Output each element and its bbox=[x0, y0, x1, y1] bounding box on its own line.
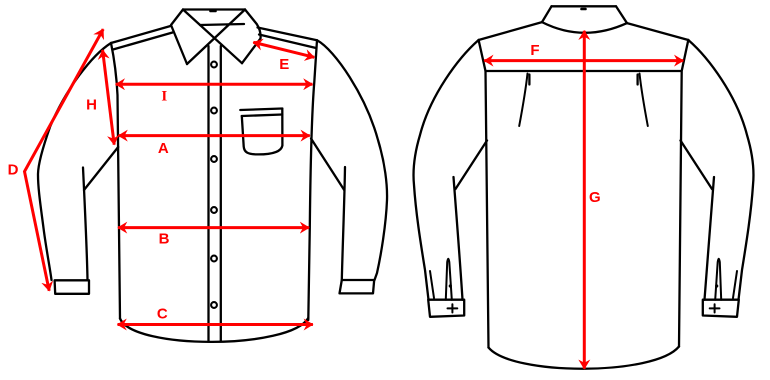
svg-text:C: C bbox=[157, 305, 168, 322]
front left sleeve inner bbox=[83, 168, 88, 281]
back right cuff seam bbox=[733, 271, 737, 298]
front placket bbox=[209, 46, 221, 342]
back yoke line bbox=[486, 70, 682, 72]
back left shoulder slope bbox=[479, 22, 542, 40]
button 6 bbox=[211, 302, 217, 308]
back right sleeve inner bbox=[681, 141, 715, 300]
back left cuff seam bbox=[430, 271, 434, 298]
arrow A bbox=[119, 134, 310, 137]
button 2 bbox=[211, 108, 217, 114]
back right sleeve outer bbox=[688, 40, 753, 300]
front left yoke seam bbox=[111, 26, 173, 50]
front buttons bbox=[211, 62, 217, 308]
collar inner band line bbox=[200, 24, 244, 25]
back right sleeve placket button bbox=[715, 284, 718, 287]
button 4 bbox=[211, 207, 217, 213]
back right pleat bbox=[640, 74, 648, 127]
button 1 bbox=[211, 62, 217, 68]
back left cuff bbox=[428, 300, 464, 317]
back body left edge bbox=[479, 40, 489, 348]
back collar top bbox=[552, 5, 617, 7]
front right yoke seam bbox=[258, 28, 318, 49]
arrow D bbox=[25, 29, 104, 291]
back right sleeve placket bbox=[715, 259, 721, 300]
back right shoulder slope bbox=[627, 23, 688, 40]
back collar bottom curve bbox=[542, 22, 627, 33]
collar diagonal right point to left corner bbox=[183, 10, 242, 64]
svg-text:G: G bbox=[589, 189, 601, 206]
back right cuff bbox=[703, 300, 739, 317]
svg-text:B: B bbox=[159, 231, 170, 248]
back collar tick bbox=[582, 8, 586, 11]
back left sleeve outer bbox=[413, 40, 478, 300]
svg-text:E: E bbox=[279, 56, 289, 73]
front right sleeve inner bbox=[342, 167, 345, 280]
back left sleeve inner bbox=[454, 141, 488, 300]
arrow B bbox=[118, 226, 309, 229]
arrow C bbox=[118, 323, 313, 326]
front right sleeve outer bbox=[317, 40, 387, 280]
collar top line bbox=[183, 8, 245, 10]
button 5 bbox=[211, 256, 217, 262]
back left sleeve placket button bbox=[449, 284, 452, 287]
pocket body bbox=[242, 109, 283, 155]
button 3 bbox=[211, 156, 217, 162]
back collar left side bbox=[542, 6, 552, 22]
front right armpit seam bbox=[311, 139, 344, 191]
front body right edge bbox=[308, 40, 317, 320]
front body left edge bbox=[111, 43, 120, 319]
back hem bbox=[489, 347, 680, 369]
svg-text:D: D bbox=[8, 162, 19, 179]
collar right leaf outer bbox=[242, 10, 261, 64]
arrow G bbox=[583, 31, 586, 369]
collar diagonal left point to right corner bbox=[187, 10, 245, 65]
back right cuff cross bbox=[710, 304, 720, 312]
collar tick bbox=[211, 10, 216, 13]
back collar right side bbox=[616, 6, 627, 23]
svg-text:A: A bbox=[158, 140, 169, 157]
front hem bbox=[120, 318, 308, 342]
arrow F bbox=[484, 59, 683, 62]
svg-text:H: H bbox=[86, 97, 97, 114]
back body right edge bbox=[679, 40, 688, 347]
back left pleat bbox=[519, 74, 527, 127]
svg-text:I: I bbox=[161, 88, 167, 104]
back left sleeve placket bbox=[446, 259, 452, 300]
front left cuff bbox=[55, 280, 89, 294]
arrow E bbox=[253, 42, 314, 57]
front left sleeve outer bbox=[38, 43, 111, 280]
collar left leaf outer bbox=[171, 10, 187, 65]
svg-text:F: F bbox=[530, 42, 539, 59]
back left cuff cross bbox=[448, 304, 458, 312]
pocket top flap lines bbox=[240, 109, 282, 117]
front right cuff bbox=[340, 280, 375, 293]
arrow H bbox=[103, 50, 115, 145]
front left armpit seam bbox=[84, 147, 118, 190]
arrow I bbox=[116, 83, 313, 86]
